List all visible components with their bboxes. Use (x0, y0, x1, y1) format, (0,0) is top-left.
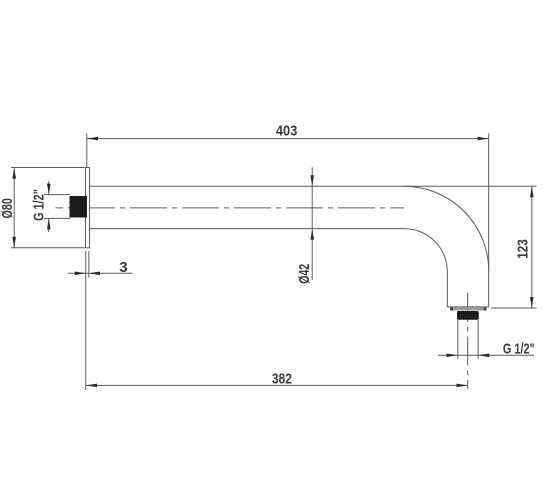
svg-text:Ø80: Ø80 (0, 198, 16, 218)
dim 3 right extension line (88, 251, 90, 278)
arrow G12 wall top (points down) (47, 184, 51, 195)
svg-text:3: 3 (119, 259, 127, 276)
403 right extension + arm outer vertical edge (488, 134, 490, 307)
wall flange plate (86, 168, 90, 248)
svg-text:382: 382 (272, 370, 292, 387)
svg-text:G 1/2": G 1/2" (503, 340, 535, 357)
arrow O42 bottom (points up) (310, 229, 314, 240)
svg-text:G 1/2": G 1/2" (31, 189, 48, 221)
arrow 382 left (86, 384, 97, 388)
outlet pipe thread left edge (457, 320, 459, 359)
dim O42 line (311, 167, 313, 280)
dim G12 wall top arrow stub (48, 181, 50, 195)
dim 123 line (531, 186, 533, 308)
dim 382 line (86, 384, 468, 386)
dim G12 wall bottom extension line (44, 217, 70, 219)
arrow 3 left (points right) (75, 272, 86, 276)
arm tube top edge + 123 top extension line (90, 185, 537, 187)
arrow 382 right (457, 384, 468, 388)
centerline vertical (outlet axis) (467, 293, 469, 389)
dim G12 wall top extension line (44, 194, 70, 196)
svg-text:Ø42: Ø42 (296, 264, 313, 284)
arrow 123 top (530, 186, 534, 197)
arrow O80 bottom (12, 237, 16, 248)
dim O80 line (13, 168, 15, 248)
arm tube bottom edge with inner bend arc (90, 229, 448, 307)
wall thread stub (black square) (70, 196, 88, 218)
dim 3 left extension line (also 382 extension) (85, 251, 87, 390)
arrow 123 bottom (530, 297, 534, 308)
arrow 403 left (87, 137, 98, 141)
dim 403 line (87, 138, 489, 140)
arrow G12 wall bottom (points up) (47, 218, 51, 229)
outer bend arc (404, 186, 489, 271)
arrow G12 outlet left (points right) (446, 354, 457, 358)
dim G12 wall bottom arrow stub (48, 218, 50, 232)
arrow G12 outlet right (points left) (478, 354, 489, 358)
dim 403 left extension line (86, 134, 88, 168)
dim 123 bottom extension line (491, 307, 537, 309)
svg-text:123: 123 (515, 239, 532, 259)
outlet pipe thread right edge (477, 320, 479, 359)
centerline horizontal (arm axis) (56, 207, 405, 209)
arrow O80 top (12, 168, 16, 179)
arrow 3 right (points left) (89, 272, 100, 276)
arrow O42 top (points down) (310, 175, 314, 186)
dim O80 bottom extension line (11, 247, 85, 249)
arrow 403 right (478, 137, 489, 141)
svg-text:403: 403 (276, 123, 298, 140)
arm end cap line (447, 306, 489, 308)
dim O80 top extension line (11, 167, 85, 169)
dim 3 line (68, 272, 133, 274)
hex nut (black) (457, 311, 479, 320)
dim G12 outlet line (438, 354, 534, 356)
chamfered cap band (450, 307, 487, 310)
